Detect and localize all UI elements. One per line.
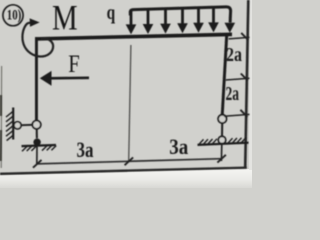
load arrow stem 1 [130, 9, 133, 26]
right dimension extension line top [229, 37, 250, 39]
left support lower link [36, 129, 38, 139]
svg-text:3a: 3a [77, 137, 94, 162]
left support link rod [21, 124, 32, 126]
right dimension extension line bottom [224, 114, 250, 116]
svg-text:F: F [68, 51, 80, 78]
right ground hatch 6 [232, 138, 237, 143]
right support connector link [221, 123, 223, 137]
svg-text:3a: 3a [169, 134, 188, 159]
right ground hatch 7 [237, 138, 242, 143]
right dimension extension line middle [226, 78, 250, 80]
right ground hatch 8 [241, 138, 246, 143]
left ground hatch 5 [47, 145, 53, 151]
svg-text:2a: 2a [226, 44, 242, 66]
right ground hatch 4 [212, 139, 217, 144]
moment M spiral arc at corner [22, 23, 53, 57]
left support pin circle on ground [33, 139, 40, 146]
right support hinge circle on column [218, 115, 226, 123]
wall hatch 2 [6, 116, 13, 122]
left wall line [12, 108, 14, 140]
right column member [221, 35, 228, 115]
load arrowhead 4 [177, 23, 188, 33]
load arrow stem 2 [147, 9, 150, 26]
load arrow stem 5 [197, 8, 200, 25]
wall hatch 5 [6, 131, 13, 137]
bottom scan border line [0, 168, 247, 174]
left ground hatch 4 [42, 145, 48, 151]
right dimension tick middle [241, 74, 248, 81]
load arrowhead 3 [160, 24, 171, 34]
distributed load top line [130, 7, 230, 23]
bottom dimension tick left [33, 160, 42, 168]
wall hatch 3 [6, 121, 13, 127]
left support stem to dimension line [36, 146, 38, 164]
load arrowhead 2 [143, 24, 154, 34]
right support roller circle [218, 136, 225, 143]
middle reference line [129, 45, 131, 161]
load arrowhead 1 [126, 24, 137, 34]
left scan-edge dark segment 2 [0, 130, 2, 161]
background paper [0, 0, 252, 188]
right ground hatch 5 [228, 138, 233, 143]
moment arrowhead [30, 18, 40, 26]
left support link pin circle [14, 122, 21, 129]
svg-text:q: q [107, 2, 116, 24]
wall hatch 1 [6, 111, 13, 117]
svg-text:M: M [52, 0, 78, 38]
right dimension tick top [241, 33, 248, 40]
bottom dimension tick middle [125, 157, 134, 165]
right dimension tick bottom [240, 110, 247, 117]
beam (top horizontal member) [35, 33, 232, 41]
left ground hatch 3 [31, 145, 37, 151]
right ground line [198, 143, 249, 145]
left ground hatch 6 [51, 146, 56, 151]
right ground hatch 2 [203, 139, 208, 144]
load arrowhead 6 [208, 22, 219, 32]
right ground hatch 1 [199, 139, 204, 144]
load arrow stem 3 [164, 9, 167, 26]
right scan border / dimension base line [245, 0, 248, 168]
right ground hatch 3 [208, 139, 213, 144]
left scan-edge dark segment 1 [0, 95, 2, 116]
problem number circle 10) [3, 5, 23, 26]
svg-text:10): 10) [7, 8, 22, 24]
left ground line [22, 145, 57, 146]
bottom dimension tick right [217, 155, 226, 163]
wall hatch 6 [7, 135, 14, 140]
load arrowhead 5 [193, 23, 204, 33]
load arrowhead 7 (curved end) [225, 23, 236, 33]
force F arrowhead [40, 71, 52, 86]
white strip below bottom frame border [0, 169, 252, 188]
wall hatch 4 [6, 126, 13, 132]
force F arrow shaft [49, 76, 89, 79]
left column member [35, 37, 38, 121]
bottom dimension line [37, 159, 222, 164]
svg-text:2a: 2a [226, 83, 240, 105]
left ground hatch 2 [27, 145, 33, 151]
right support stem to dimension line [220, 145, 222, 161]
left support hinge circle on column [32, 121, 40, 129]
load arrow stem 6 [212, 7, 215, 24]
left scan-edge line [0, 66, 2, 168]
left ground hatch 1 [22, 146, 28, 152]
load arrow stem 4 [181, 8, 184, 25]
light strip right of right frame border [249, 0, 252, 170]
